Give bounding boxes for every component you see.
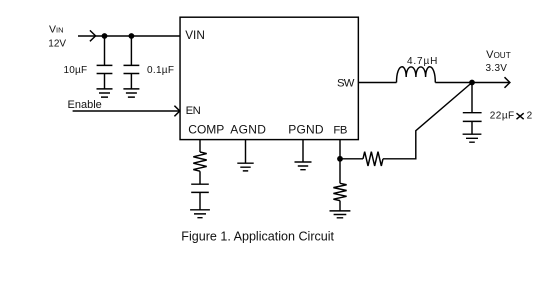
svg-text:COMP: COMP [188,122,224,136]
svg-text:12V: 12V [48,39,66,50]
svg-text:FB: FB [333,124,347,136]
svg-text:VIN: VIN [49,23,64,35]
svg-text:SW: SW [337,77,355,89]
svg-text:10µF: 10µF [64,65,88,76]
svg-text:0.1µF: 0.1µF [147,65,174,76]
svg-text:AGND: AGND [230,122,266,136]
svg-text:Enable: Enable [68,99,102,111]
svg-text:22µF: 22µF [490,110,515,121]
svg-text:VIN: VIN [185,28,205,42]
svg-text:2: 2 [527,110,533,121]
svg-text:4.7µH: 4.7µH [407,56,438,67]
svg-text:PGND: PGND [288,122,324,136]
svg-text:Figure 1. Application Circuit: Figure 1. Application Circuit [181,229,334,243]
svg-text:EN: EN [186,105,201,117]
svg-text:3.3V: 3.3V [486,63,508,74]
svg-text:VOUT: VOUT [486,49,511,61]
